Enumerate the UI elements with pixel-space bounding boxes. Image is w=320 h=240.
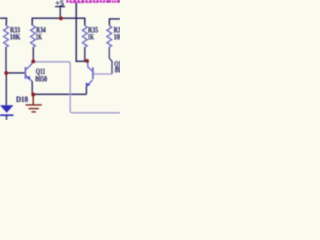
svg-text:1K: 1K (88, 33, 95, 42)
svg-text:8050: 8050 (35, 75, 47, 84)
svg-text:10K: 10K (114, 33, 120, 42)
svg-text:10K: 10K (10, 33, 21, 42)
svg-text:8050: 8050 (115, 65, 120, 74)
svg-text:1K: 1K (36, 33, 43, 42)
svg-text:+5: +5 (55, 0, 64, 8)
svg-text:D18: D18 (16, 95, 28, 104)
